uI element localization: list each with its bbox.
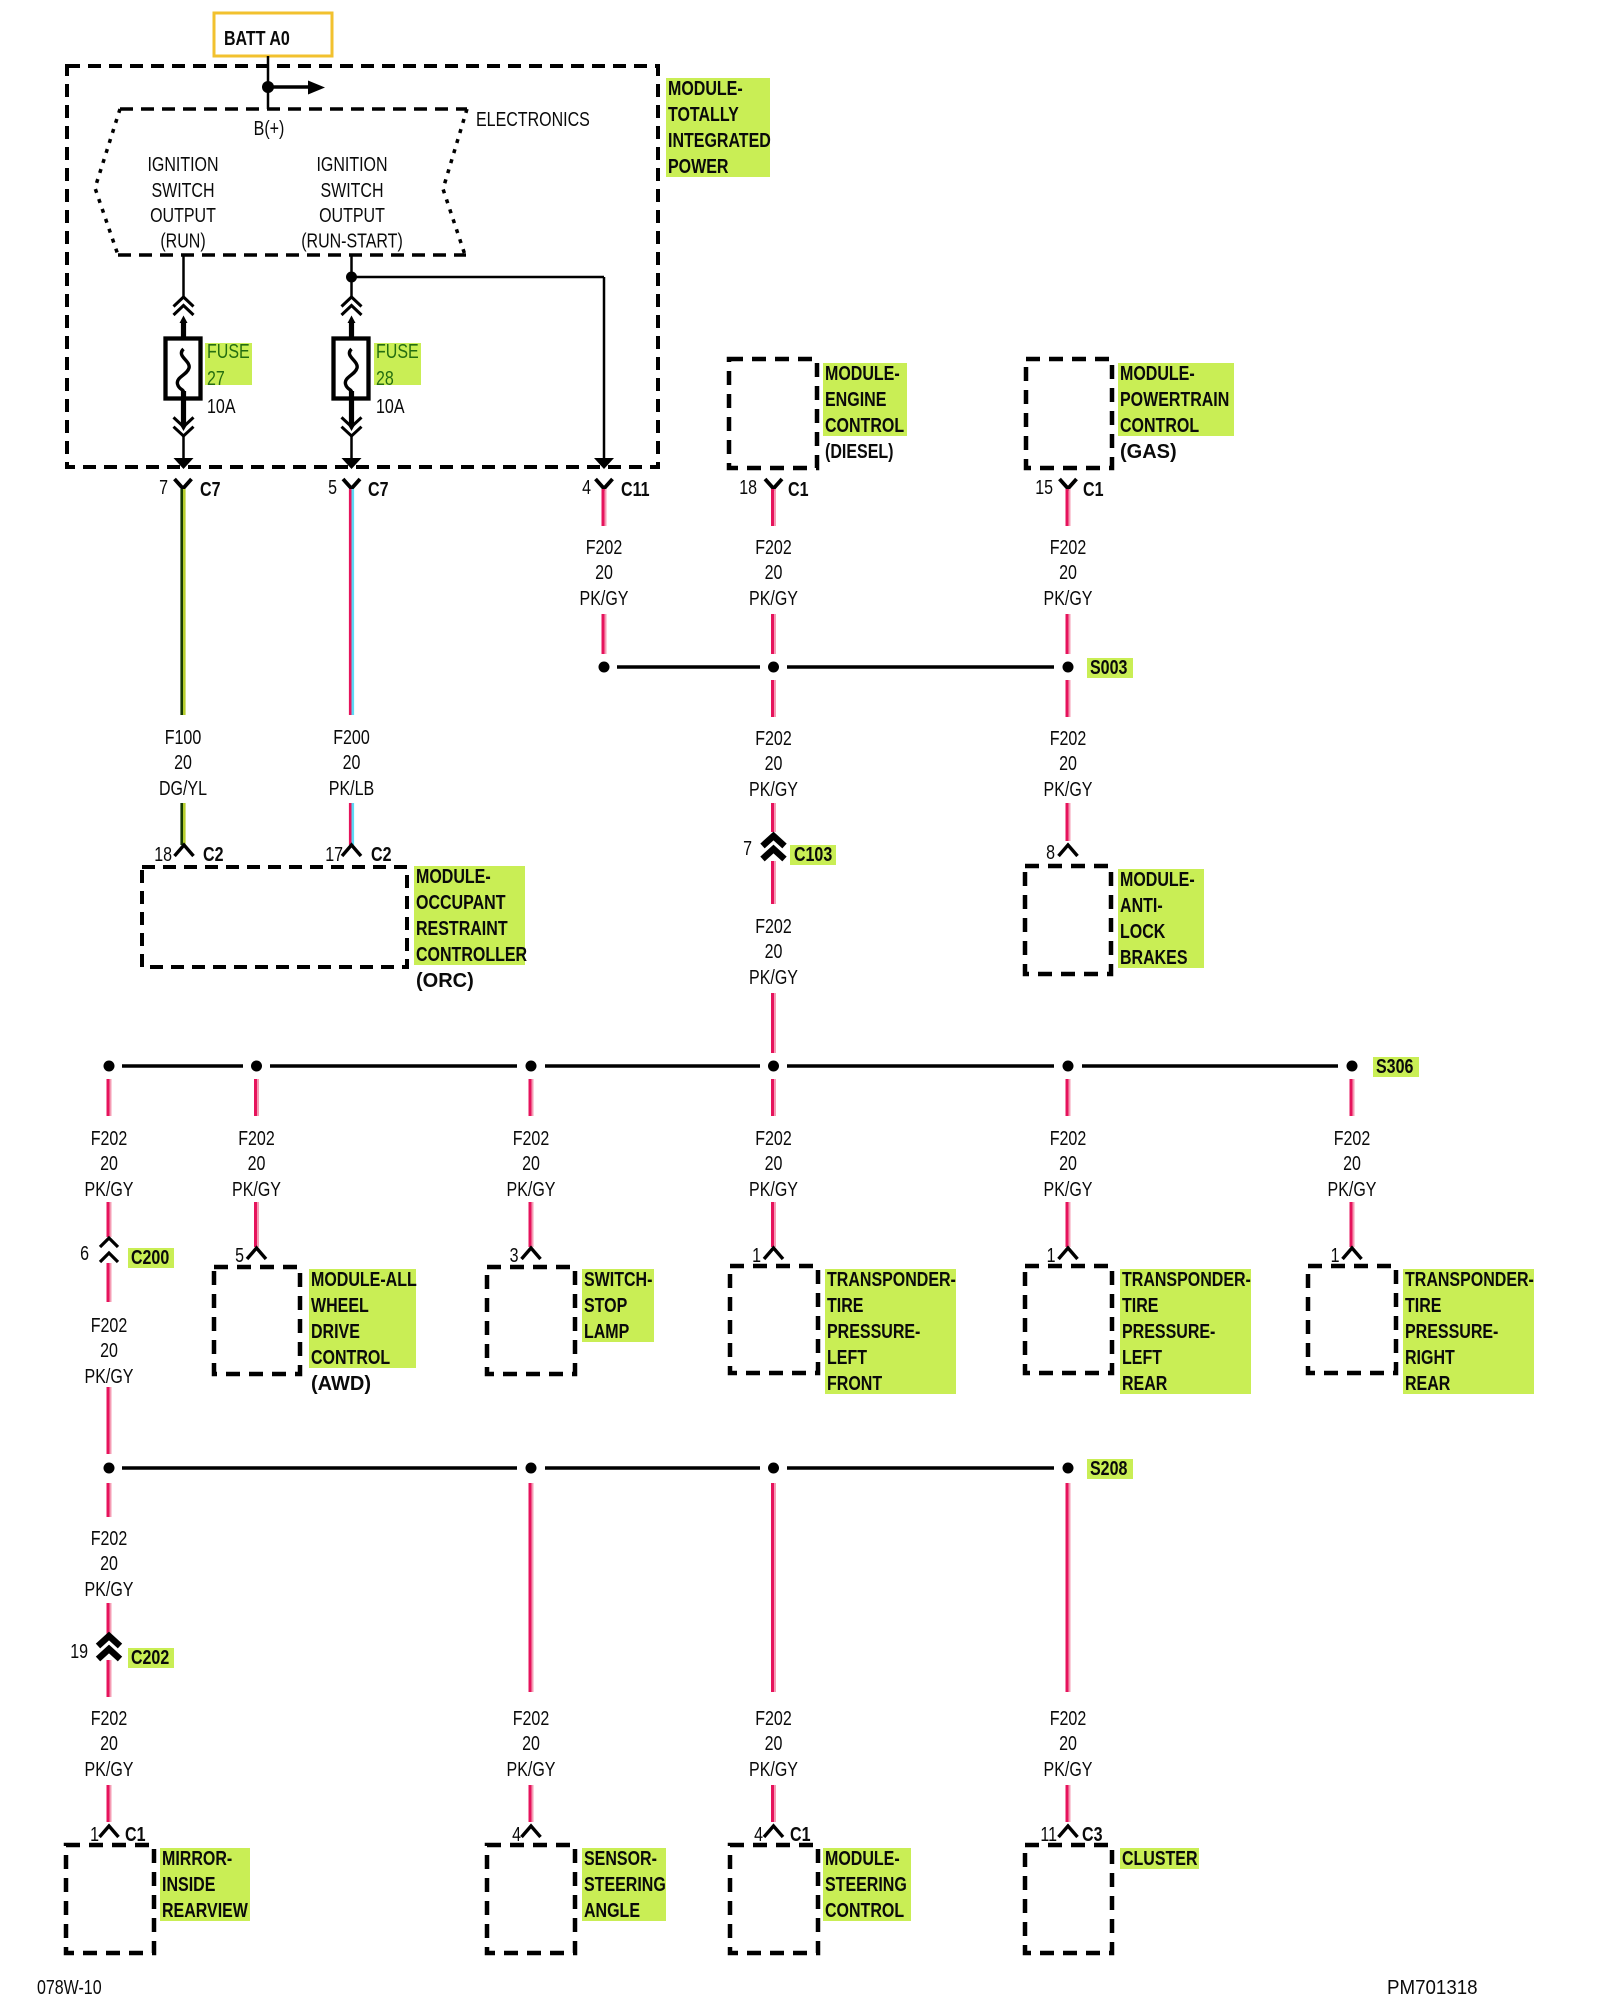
- svg-text:20: 20: [343, 752, 361, 774]
- svg-text:(RUN): (RUN): [160, 231, 205, 253]
- svg-text:TRANSPONDER-: TRANSPONDER-: [827, 1269, 956, 1291]
- wire F202 PK/GY below C200: [108, 1263, 111, 1302]
- wire from BATT A0 down to B(+): [267, 56, 270, 109]
- fuse F27 symbol: [166, 339, 201, 399]
- module TIPM (Totally Integrated Power) label: [666, 78, 770, 177]
- connector chevrons above fuse 28: [342, 297, 362, 315]
- connector pin 4 (steering angle sensor): [512, 1824, 540, 1846]
- inner dashed torn-edge region (internal TIPM circuitry): [95, 109, 467, 255]
- junction dot S003 at C11 column: [599, 662, 610, 673]
- connector C103 pin 7 double chevron: [743, 836, 784, 860]
- svg-text:20: 20: [522, 1733, 540, 1755]
- svg-text:CONTROL: CONTROL: [825, 1900, 904, 1922]
- svg-text:PK/GY: PK/GY: [749, 588, 798, 610]
- svg-text:PK/GY: PK/GY: [1044, 1179, 1093, 1201]
- module TIPM outer dashed box: [67, 66, 658, 467]
- svg-text:F202: F202: [755, 1128, 792, 1150]
- svg-text:STEERING: STEERING: [825, 1874, 907, 1896]
- svg-text:C3: C3: [1082, 1824, 1103, 1846]
- junction dot S003 at powertrain column: [1063, 662, 1074, 673]
- mirror inside rearview dashed box: [66, 1845, 154, 1953]
- label F100 20 DG/YL (F100): [159, 727, 207, 800]
- label F202 20 PK/GY (F202): [749, 728, 798, 801]
- svg-text:PK/GY: PK/GY: [1044, 1759, 1093, 1781]
- arrow feed to right (bus continues): [268, 81, 325, 95]
- connector pin 4 C1 (steering control): [754, 1824, 810, 1846]
- svg-text:POWERTRAIN: POWERTRAIN: [1120, 389, 1229, 411]
- svg-text:F202: F202: [1050, 728, 1087, 750]
- svg-text:28: 28: [376, 368, 394, 390]
- wire F202 PK/GY to pin 5: [256, 1202, 259, 1247]
- sensor steering angle dashed box: [487, 1845, 575, 1953]
- svg-text:OCCUPANT: OCCUPANT: [416, 892, 506, 914]
- wire F202 PK/GY below S208 to C202: [108, 1483, 111, 1517]
- svg-text:20: 20: [765, 562, 783, 584]
- connector pin 1 C1 (mirror): [90, 1824, 145, 1846]
- fuse F28 symbol: [334, 339, 369, 399]
- wire F202 PK/GY from C103 down to S306: [773, 861, 776, 904]
- connector pin 18 C2: [154, 844, 223, 866]
- wire F202 PK/GY below S208 long segment (steering angle): [530, 1483, 533, 1692]
- svg-text:F202: F202: [1050, 1128, 1087, 1150]
- wire F202 PK/GY below S306: [1067, 1079, 1070, 1116]
- svg-text:F200: F200: [333, 727, 370, 749]
- svg-text:1: 1: [1047, 1245, 1056, 1267]
- svg-text:1: 1: [1331, 1245, 1340, 1267]
- svg-text:SWITCH: SWITCH: [151, 180, 214, 202]
- svg-text:PK/GY: PK/GY: [85, 1366, 134, 1388]
- svg-text:F202: F202: [1050, 1708, 1087, 1730]
- svg-text:ANTI-: ANTI-: [1120, 895, 1163, 917]
- label F202 20 PK/GY (F202): [85, 1528, 134, 1601]
- junction dot S003 at engine column: [768, 662, 779, 673]
- svg-text:PK/GY: PK/GY: [749, 1179, 798, 1201]
- junction dot S306 tire LF column: [768, 1061, 779, 1072]
- wire F100 20 DG/YL from C7 pin7: [182, 489, 185, 715]
- wire F202 20 PK/GY from C1 pin18 to splice S003: [773, 489, 776, 526]
- svg-text:C2: C2: [371, 844, 392, 866]
- svg-text:STOP: STOP: [584, 1295, 627, 1317]
- svg-text:DRIVE: DRIVE: [311, 1321, 360, 1343]
- wire F202 PK/GY below S208 long segment (cluster): [1067, 1483, 1070, 1692]
- connector pin 7 C7: [159, 477, 220, 501]
- svg-text:C103: C103: [794, 844, 832, 866]
- label F202 20 PK/GY (F202): [232, 1128, 281, 1201]
- svg-text:3: 3: [510, 1245, 519, 1267]
- svg-text:REARVIEW: REARVIEW: [162, 1900, 248, 1922]
- svg-text:20: 20: [522, 1153, 540, 1175]
- label S003 highlighted: [1087, 657, 1133, 679]
- module Engine Control label: [823, 363, 907, 436]
- label F202 20 PK/GY (F202): [1328, 1128, 1377, 1201]
- svg-text:6: 6: [80, 1243, 89, 1265]
- svg-text:PK/GY: PK/GY: [85, 1759, 134, 1781]
- thick wire into fuse 28: [348, 316, 356, 324]
- svg-text:20: 20: [1059, 562, 1077, 584]
- svg-text:4: 4: [582, 477, 591, 499]
- transponder tire pressure left rear label: [1120, 1269, 1251, 1394]
- svg-text:5: 5: [235, 1245, 244, 1267]
- junction dot S306 stop lamp column: [526, 1061, 537, 1072]
- svg-text:C202: C202: [131, 1647, 169, 1669]
- connector C200 pin 6 double chevron: [80, 1238, 118, 1265]
- wire F200 lower segment: [350, 803, 353, 845]
- svg-text:S003: S003: [1090, 657, 1127, 679]
- svg-text:PK/GY: PK/GY: [749, 1759, 798, 1781]
- junction dot S208 steering control column: [768, 1463, 779, 1474]
- svg-text:MODULE-: MODULE-: [825, 363, 900, 385]
- svg-text:PK/GY: PK/GY: [232, 1179, 281, 1201]
- svg-text:F202: F202: [91, 1315, 128, 1337]
- wire F202 PK/GY to pin 3: [530, 1202, 533, 1247]
- svg-text:WHEEL: WHEEL: [311, 1295, 369, 1317]
- transponder Tire Pressure Left Rear dashed box: [1025, 1266, 1112, 1373]
- transponder Tire Pressure Right Rear dashed box: [1308, 1266, 1396, 1373]
- svg-text:20: 20: [1343, 1153, 1361, 1175]
- svg-text:CONTROL: CONTROL: [825, 415, 904, 437]
- svg-text:20: 20: [1059, 753, 1077, 775]
- svg-text:REAR: REAR: [1122, 1373, 1168, 1395]
- svg-text:F202: F202: [91, 1708, 128, 1730]
- wire F202 PK/GY to pin 1: [1067, 1202, 1070, 1247]
- svg-text:S208: S208: [1090, 1458, 1127, 1480]
- wire RUN-START output down to fuse 28: [350, 255, 353, 298]
- label C200 highlighted: [128, 1247, 174, 1269]
- label F200 20 PK/LB (F200): [329, 727, 374, 800]
- module Powertrain Control (gas) dashed box: [1026, 359, 1112, 468]
- svg-text:C1: C1: [790, 1824, 811, 1846]
- svg-text:F202: F202: [513, 1128, 550, 1150]
- svg-text:TIRE: TIRE: [827, 1295, 864, 1317]
- svg-text:CLUSTER: CLUSTER: [1122, 1848, 1198, 1870]
- label F202 20 PK/GY (F202): [580, 537, 629, 610]
- junction dot on BATT feed: [262, 81, 274, 93]
- junction dot S306 AWD column: [251, 1061, 262, 1072]
- switch Stop Lamp dashed box: [487, 1267, 575, 1374]
- wire F202 PK/GY below S306: [530, 1079, 533, 1116]
- wire F202 PK/GY below S306: [108, 1079, 111, 1116]
- module Anti-Lock Brakes dashed box: [1025, 866, 1111, 974]
- junction dot S208 mirror column: [104, 1463, 115, 1474]
- svg-text:SENSOR-: SENSOR-: [584, 1848, 657, 1870]
- label F202 20 PK/GY (F202): [1044, 728, 1093, 801]
- svg-text:F202: F202: [1050, 537, 1087, 559]
- svg-text:PRESSURE-: PRESSURE-: [1122, 1321, 1215, 1343]
- svg-text:F202: F202: [755, 1708, 792, 1730]
- svg-text:(GAS): (GAS): [1120, 441, 1177, 463]
- svg-text:LEFT: LEFT: [1122, 1347, 1162, 1369]
- wire F202 PK/GY below S306: [773, 1079, 776, 1116]
- svg-text:C1: C1: [125, 1824, 146, 1846]
- svg-text:MODULE-: MODULE-: [1120, 363, 1195, 385]
- svg-text:RIGHT: RIGHT: [1405, 1347, 1455, 1369]
- svg-text:LEFT: LEFT: [827, 1347, 867, 1369]
- svg-text:F202: F202: [755, 916, 792, 938]
- wire F202 PK/GY below S306: [1351, 1079, 1354, 1116]
- svg-text:ANGLE: ANGLE: [584, 1900, 640, 1922]
- wire F202 PK/GY from S003 down to C103: [773, 680, 776, 717]
- svg-text:C1: C1: [788, 479, 809, 501]
- label F202 20 PK/GY (F202): [749, 1128, 798, 1201]
- svg-text:PK/GY: PK/GY: [1044, 588, 1093, 610]
- svg-text:DG/YL: DG/YL: [159, 778, 207, 800]
- svg-text:MODULE-: MODULE-: [1120, 869, 1195, 891]
- svg-text:PK/GY: PK/GY: [580, 588, 629, 610]
- svg-text:MODULE-: MODULE-: [416, 866, 491, 888]
- connector pin 1: [752, 1245, 783, 1267]
- svg-text:SWITCH-: SWITCH-: [584, 1269, 652, 1291]
- connector pin 8 (ABS): [1046, 842, 1077, 864]
- module All Wheel Drive Control label: [309, 1269, 416, 1368]
- svg-text:PK/GY: PK/GY: [749, 967, 798, 989]
- connector chevrons above fuse 27: [174, 297, 194, 315]
- wire RUN output down to fuse 27: [182, 255, 185, 298]
- svg-text:F100: F100: [165, 727, 202, 749]
- svg-text:1: 1: [752, 1245, 761, 1267]
- svg-text:TOTALLY: TOTALLY: [668, 104, 739, 126]
- svg-text:INSIDE: INSIDE: [162, 1874, 215, 1896]
- splice S306 bus wire: [122, 1064, 1338, 1068]
- svg-text:BRAKES: BRAKES: [1120, 947, 1188, 969]
- label FUSE 28 highlighted: [374, 341, 421, 390]
- cluster dashed box: [1025, 1845, 1112, 1953]
- svg-text:10A: 10A: [207, 396, 236, 418]
- svg-text:C11: C11: [621, 479, 650, 501]
- wire F202 PK/GY to pin 1: [773, 1202, 776, 1247]
- svg-text:1: 1: [90, 1824, 99, 1846]
- svg-text:TRANSPONDER-: TRANSPONDER-: [1122, 1269, 1251, 1291]
- svg-text:F202: F202: [238, 1128, 275, 1150]
- svg-text:20: 20: [100, 1340, 118, 1362]
- svg-text:POWER: POWER: [668, 156, 729, 178]
- svg-text:20: 20: [248, 1153, 266, 1175]
- svg-text:PK/GY: PK/GY: [507, 1179, 556, 1201]
- svg-text:PK/GY: PK/GY: [749, 779, 798, 801]
- svg-text:20: 20: [174, 752, 192, 774]
- svg-text:18: 18: [154, 844, 172, 866]
- label C202 highlighted: [128, 1647, 174, 1669]
- svg-text:C200: C200: [131, 1247, 169, 1269]
- module Engine Control (diesel) dashed box: [729, 359, 817, 468]
- svg-text:MODULE-: MODULE-: [825, 1848, 900, 1870]
- thick wire out of fuse 27: [181, 391, 186, 426]
- connector pin 18 C1 (engine control): [739, 477, 808, 501]
- thick wire into fuse 27: [180, 316, 188, 324]
- connector pin 5: [235, 1245, 266, 1267]
- label F202 20 PK/GY (F202): [749, 537, 798, 610]
- svg-text:PK/GY: PK/GY: [1328, 1179, 1377, 1201]
- svg-text:F202: F202: [755, 537, 792, 559]
- label F202 20 PK/GY (F202): [749, 1708, 798, 1781]
- svg-text:PK/GY: PK/GY: [1044, 779, 1093, 801]
- svg-text:S306: S306: [1376, 1056, 1413, 1078]
- wire F202 20 PK/GY from C11 pin4 to splice S003: [603, 489, 606, 526]
- svg-text:8: 8: [1046, 842, 1055, 864]
- module ORC dashed box: [142, 867, 407, 967]
- double chevron down below fuse 27: [174, 417, 194, 436]
- svg-text:OUTPUT: OUTPUT: [319, 205, 385, 227]
- svg-text:MODULE-ALL: MODULE-ALL: [311, 1269, 417, 1291]
- connector C202 pin 19 double chevron: [70, 1636, 120, 1663]
- label F202 20 PK/GY (F202): [85, 1315, 134, 1388]
- svg-text:F202: F202: [755, 728, 792, 750]
- label S306 highlighted: [1373, 1056, 1419, 1078]
- wire F202 PK/GY to C200: [108, 1202, 111, 1237]
- cluster label: [1120, 1848, 1199, 1869]
- connector pin 17 C2: [325, 844, 391, 866]
- svg-text:CONTROL: CONTROL: [1120, 415, 1199, 437]
- label F202 20 PK/GY (F202): [507, 1708, 556, 1781]
- battery feed BATT A0 box: [214, 13, 332, 56]
- thin wire to TIPM edge with arrow (fuse 27 output): [182, 436, 185, 459]
- svg-text:15: 15: [1035, 477, 1053, 499]
- svg-text:18: 18: [739, 477, 757, 499]
- svg-text:PRESSURE-: PRESSURE-: [1405, 1321, 1498, 1343]
- svg-text:PM701318: PM701318: [1387, 1977, 1478, 1999]
- module steering control label: [823, 1848, 911, 1921]
- connector pin 5 C7: [328, 477, 388, 501]
- wire F200 20 PK/LB from C7 pin5: [350, 489, 353, 715]
- wire F202 PK/GY to pin 1: [1351, 1202, 1354, 1247]
- svg-text:B(+): B(+): [254, 118, 285, 140]
- double chevron down below fuse 28: [342, 417, 362, 436]
- connector pin 11 C3 (cluster): [1040, 1824, 1102, 1846]
- wire across to C11 drop: [352, 276, 605, 279]
- svg-text:20: 20: [765, 941, 783, 963]
- svg-text:PK/GY: PK/GY: [507, 1759, 556, 1781]
- label F202 20 PK/GY (F202): [85, 1128, 134, 1201]
- svg-text:REAR: REAR: [1405, 1373, 1451, 1395]
- junction dot S306 tire LR column: [1063, 1061, 1074, 1072]
- svg-text:(RUN-START): (RUN-START): [301, 231, 403, 253]
- svg-text:F202: F202: [91, 1528, 128, 1550]
- splice S003 bus wire: [617, 665, 1054, 669]
- junction dot S208 steering angle column: [526, 1463, 537, 1474]
- svg-text:ELECTRONICS: ELECTRONICS: [476, 109, 590, 131]
- svg-text:LOCK: LOCK: [1120, 921, 1166, 943]
- label IGNITION SWITCH OUTPUT (RUN): [147, 154, 218, 253]
- svg-text:PK/GY: PK/GY: [85, 1579, 134, 1601]
- junction dot S208 cluster column: [1063, 1463, 1074, 1474]
- svg-text:20: 20: [765, 1733, 783, 1755]
- svg-text:20: 20: [100, 1153, 118, 1175]
- svg-text:(ORC): (ORC): [416, 970, 474, 992]
- svg-text:20: 20: [1059, 1153, 1077, 1175]
- svg-text:(AWD): (AWD): [311, 1373, 371, 1395]
- svg-text:PK/GY: PK/GY: [85, 1179, 134, 1201]
- svg-text:BATT A0: BATT A0: [224, 28, 290, 50]
- svg-text:5: 5: [328, 477, 337, 499]
- connector pin 1: [1331, 1245, 1362, 1267]
- svg-text:ENGINE: ENGINE: [825, 389, 886, 411]
- svg-text:4: 4: [754, 1824, 763, 1846]
- label F202 20 PK/GY (F202): [1044, 1708, 1093, 1781]
- svg-text:7: 7: [743, 838, 752, 860]
- splice S208 bus wire: [122, 1466, 1054, 1470]
- svg-text:PK/LB: PK/LB: [329, 778, 374, 800]
- wire F202 PK/GY below S306: [256, 1079, 259, 1116]
- svg-text:SWITCH: SWITCH: [320, 180, 383, 202]
- svg-text:27: 27: [207, 368, 225, 390]
- svg-text:F202: F202: [513, 1708, 550, 1730]
- svg-text:F202: F202: [91, 1128, 128, 1150]
- svg-text:RESTRAINT: RESTRAINT: [416, 918, 508, 940]
- transponder tire pressure right rear label: [1403, 1269, 1534, 1394]
- junction dot to C11 feed: [346, 272, 357, 283]
- thick wire out of fuse 28: [349, 391, 354, 426]
- transponder tire pressure left front label: [825, 1269, 956, 1394]
- svg-text:4: 4: [512, 1824, 521, 1846]
- svg-text:F202: F202: [586, 537, 623, 559]
- svg-text:20: 20: [100, 1733, 118, 1755]
- svg-text:CONTROL: CONTROL: [311, 1347, 390, 1369]
- svg-text:7: 7: [159, 477, 168, 499]
- svg-text:FRONT: FRONT: [827, 1373, 882, 1395]
- svg-text:C7: C7: [368, 479, 389, 501]
- wire F100 lower segment: [182, 803, 185, 845]
- svg-text:FUSE: FUSE: [376, 341, 419, 363]
- wire down to pin 4 C11 with arrow: [603, 277, 606, 459]
- svg-text:(DIESEL): (DIESEL): [825, 441, 894, 463]
- label F202 20 PK/GY (F202): [507, 1128, 556, 1201]
- wire F202 PK/GY below C202: [108, 1660, 111, 1697]
- label S208 highlighted: [1087, 1458, 1133, 1480]
- connector pin 3: [510, 1245, 541, 1267]
- wire F202 PK/GY below S208 long segment (steering control): [773, 1483, 776, 1692]
- svg-text:078W-10: 078W-10: [37, 1977, 102, 1999]
- svg-text:STEERING: STEERING: [584, 1874, 666, 1896]
- svg-text:PRESSURE-: PRESSURE-: [827, 1321, 920, 1343]
- junction dot S306 left column: [104, 1061, 115, 1072]
- mirror inside rearview label: [160, 1848, 250, 1921]
- wire F202 PK/GY from S003 down to ABS module: [1067, 680, 1070, 717]
- module Anti-Lock Brakes label: [1118, 869, 1204, 968]
- connector pin 15 C1 (powertrain control): [1035, 477, 1103, 501]
- svg-text:IGNITION: IGNITION: [316, 154, 387, 176]
- transponder Tire Pressure Left Front dashed box: [730, 1266, 818, 1373]
- switch Stop Lamp label: [582, 1269, 654, 1342]
- label F202 20 PK/GY (F202): [1044, 537, 1093, 610]
- wire F202 PK/GY down to S208: [108, 1387, 111, 1454]
- label F202 20 PK/GY (F202): [1044, 1128, 1093, 1201]
- module Occupant Restraint Controller label: [414, 866, 525, 965]
- svg-text:OUTPUT: OUTPUT: [150, 205, 216, 227]
- svg-text:20: 20: [765, 1153, 783, 1175]
- connector pin 1: [1047, 1245, 1078, 1267]
- connector pin 4 C11: [582, 477, 649, 501]
- svg-text:FUSE: FUSE: [207, 341, 250, 363]
- sensor steering angle label: [582, 1848, 666, 1921]
- label F202 20 PK/GY (F202): [85, 1708, 134, 1781]
- svg-text:INTEGRATED: INTEGRATED: [668, 130, 771, 152]
- svg-text:C1: C1: [1083, 479, 1104, 501]
- svg-text:F202: F202: [1334, 1128, 1371, 1150]
- svg-text:19: 19: [70, 1641, 88, 1663]
- svg-text:20: 20: [100, 1553, 118, 1575]
- svg-text:IGNITION: IGNITION: [147, 154, 218, 176]
- label IGNITION SWITCH OUTPUT (RUN-START): [301, 154, 403, 253]
- svg-text:MODULE-: MODULE-: [668, 78, 743, 100]
- svg-text:20: 20: [595, 562, 613, 584]
- svg-text:TIRE: TIRE: [1405, 1295, 1442, 1317]
- svg-text:17: 17: [325, 844, 343, 866]
- svg-text:20: 20: [765, 753, 783, 775]
- wire F202 20 PK/GY from C1 pin15 to splice S003: [1067, 489, 1070, 526]
- junction dot S306 tire RR column: [1347, 1061, 1358, 1072]
- label C103 highlighted: [790, 844, 836, 866]
- svg-text:TRANSPONDER-: TRANSPONDER-: [1405, 1269, 1534, 1291]
- svg-text:TIRE: TIRE: [1122, 1295, 1159, 1317]
